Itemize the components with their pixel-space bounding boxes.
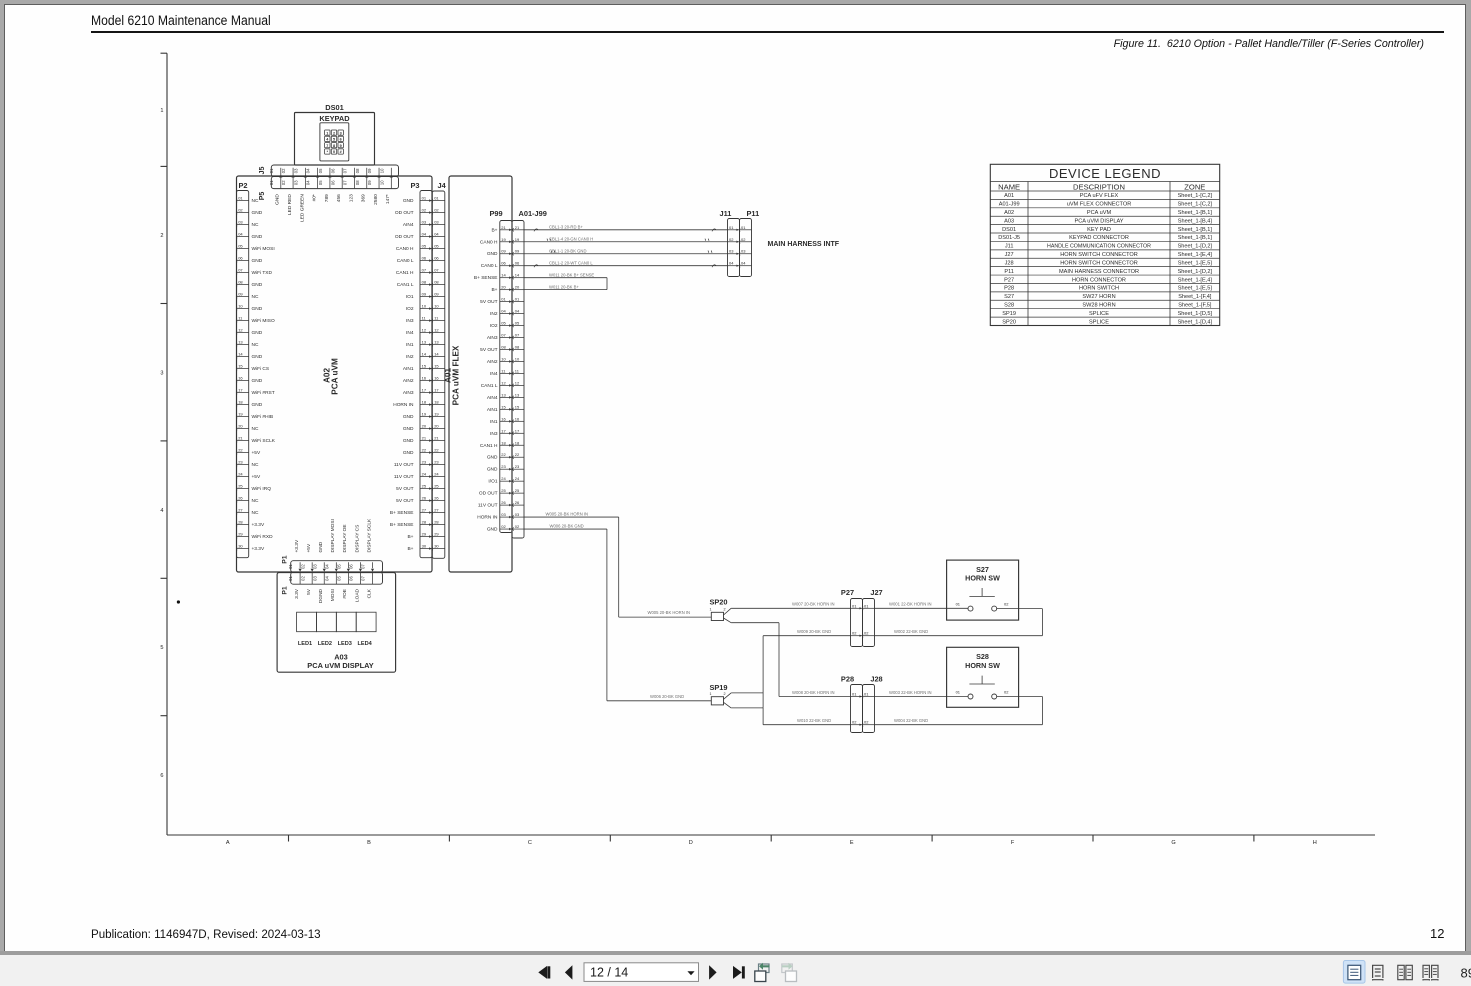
svg-text:+5V: +5V <box>252 450 261 456</box>
svg-text:06: 06 <box>515 261 520 266</box>
svg-text:07: 07 <box>343 180 348 185</box>
svg-text:09: 09 <box>238 292 243 297</box>
svg-text:HORN SW: HORN SW <box>965 574 1000 583</box>
svg-text:CAN0 L: CAN0 L <box>481 263 498 269</box>
svg-text:DGND: DGND <box>318 588 324 603</box>
svg-text:23: 23 <box>238 460 243 465</box>
svg-text:02: 02 <box>1004 602 1009 607</box>
svg-text:3.3V: 3.3V <box>294 588 300 599</box>
svg-text:08: 08 <box>501 345 506 350</box>
S27 actuator <box>981 588 983 596</box>
svg-text:LED3: LED3 <box>338 641 352 647</box>
J5 pin 02 <box>292 168 294 177</box>
svg-text:02: 02 <box>434 208 439 213</box>
svg-text:HORN SWITCH CONNECTOR: HORN SWITCH CONNECTOR <box>1060 252 1138 258</box>
device A01 PCA uVM FLEX outline <box>449 176 512 572</box>
svg-text:02: 02 <box>1004 690 1009 695</box>
svg-text:11: 11 <box>238 316 243 321</box>
svg-text:C: C <box>528 840 532 846</box>
svg-text:S27: S27 <box>976 565 989 574</box>
svg-text:SW27 HORN: SW27 HORN <box>1082 294 1115 300</box>
svg-text:WiFi MISO: WiFi MISO <box>252 318 275 324</box>
svg-text:06: 06 <box>330 168 335 173</box>
svg-text:14: 14 <box>422 352 427 357</box>
device legend table <box>990 164 1219 325</box>
svg-text:21: 21 <box>422 436 427 441</box>
LED indicators LED1-LED4 <box>297 612 317 632</box>
svg-text:5: 5 <box>160 645 163 651</box>
svg-text:20: 20 <box>434 424 439 429</box>
svg-text:05: 05 <box>422 244 427 249</box>
svg-text:HORN SWITCH: HORN SWITCH <box>1079 286 1119 292</box>
svg-text:B+: B+ <box>407 534 413 540</box>
P5 pin 02 with arrow <box>292 177 294 188</box>
svg-text:2: 2 <box>723 692 725 696</box>
svg-text:W001 22-BK HORN IN: W001 22-BK HORN IN <box>889 602 932 607</box>
svg-text:02: 02 <box>281 180 286 185</box>
svg-text:GND: GND <box>403 438 414 444</box>
svg-text:11: 11 <box>501 368 506 373</box>
svg-text:17: 17 <box>515 428 520 433</box>
svg-text:28: 28 <box>422 520 427 525</box>
svg-text:P2: P2 <box>239 181 248 190</box>
svg-text:12: 12 <box>434 328 439 333</box>
svg-text:14: 14 <box>515 273 520 278</box>
svg-text:6: 6 <box>160 773 163 779</box>
svg-text:Sheet_1-[D,5]: Sheet_1-[D,5] <box>1178 311 1213 317</box>
svg-text:19: 19 <box>501 237 506 242</box>
svg-text:P99: P99 <box>490 209 503 218</box>
svg-text:Sheet_1-[E,5]: Sheet_1-[E,5] <box>1178 260 1213 266</box>
svg-text:GND: GND <box>487 527 498 533</box>
svg-text:J5: J5 <box>259 167 266 175</box>
svg-text:HANDLE COMMUNICATION CONNECTOR: HANDLE COMMUNICATION CONNECTOR <box>1047 244 1151 250</box>
svg-text:WiFi RXD: WiFi RXD <box>252 534 274 540</box>
svg-text:01: 01 <box>501 297 506 302</box>
svg-text:23: 23 <box>515 464 520 469</box>
svg-text:IN1: IN1 <box>406 342 414 348</box>
svg-text:D: D <box>689 840 693 846</box>
svg-text:06: 06 <box>501 261 506 266</box>
svg-text:27: 27 <box>434 508 439 513</box>
svg-text:04: 04 <box>306 168 311 173</box>
svg-text:02: 02 <box>729 237 734 242</box>
svg-text:IN2: IN2 <box>490 311 498 317</box>
wire W006 GND segment <box>524 528 607 530</box>
svg-text:P27: P27 <box>1004 277 1014 283</box>
svg-text:29: 29 <box>238 532 243 537</box>
svg-text:W007 20-BK HORN IN: W007 20-BK HORN IN <box>792 602 835 607</box>
P5 pin 03 with arrow <box>304 177 306 188</box>
svg-text:04: 04 <box>515 309 520 314</box>
svg-text:DEVICE LEGEND: DEVICE LEGEND <box>1049 166 1161 181</box>
svg-text:AIN3: AIN3 <box>487 335 498 341</box>
svg-text:5V OUT: 5V OUT <box>480 347 497 353</box>
svg-text:GND: GND <box>252 282 263 288</box>
svg-text:03: 03 <box>422 220 427 225</box>
svg-text:07: 07 <box>361 576 366 581</box>
svg-text:HORN IN: HORN IN <box>477 515 498 521</box>
svg-text:W005 20-BK HORN IN: W005 20-BK HORN IN <box>546 511 589 516</box>
svg-text:NAME: NAME <box>998 182 1020 191</box>
svg-text:02: 02 <box>238 208 243 213</box>
svg-text:10: 10 <box>515 356 520 361</box>
wire W005 HORN IN segment <box>524 516 619 518</box>
svg-text:05: 05 <box>515 321 520 326</box>
svg-text:HORN SW: HORN SW <box>965 661 1000 670</box>
svg-text:03: 03 <box>293 168 298 173</box>
svg-text:02: 02 <box>741 237 746 242</box>
svg-text:17: 17 <box>501 428 506 433</box>
svg-text:PCA uVM DISPLAY: PCA uVM DISPLAY <box>1074 218 1123 224</box>
svg-text:05: 05 <box>238 244 243 249</box>
wire W004 GND return S28 to J28 <box>997 696 1043 698</box>
svg-text:4: 4 <box>326 138 329 142</box>
svg-text:123: 123 <box>348 194 354 202</box>
svg-text:HORN CONNECTOR: HORN CONNECTOR <box>1072 277 1126 283</box>
svg-text:Sheet_1-[B,1]: Sheet_1-[B,1] <box>1178 227 1213 233</box>
P5 pin 01 with arrow <box>280 177 282 188</box>
svg-text:07: 07 <box>343 168 348 173</box>
svg-text:CAN0 H: CAN0 H <box>480 239 498 245</box>
svg-text:06: 06 <box>349 576 354 581</box>
P5 pin 08 with arrow <box>366 177 368 188</box>
svg-text:8: 8 <box>333 144 335 148</box>
svg-text:06: 06 <box>434 256 439 261</box>
svg-text:5: 5 <box>333 138 335 142</box>
svg-text:12: 12 <box>515 380 520 385</box>
svg-text:DISPLAY CS: DISPLAY CS <box>354 525 360 553</box>
svg-text:13: 13 <box>238 340 243 345</box>
svg-text:IO2: IO2 <box>490 323 498 329</box>
svg-text:25: 25 <box>434 484 439 489</box>
svg-text:18: 18 <box>515 440 520 445</box>
svg-text:P1: P1 <box>282 555 289 564</box>
svg-text:1: 1 <box>709 608 711 612</box>
svg-text:02: 02 <box>864 720 869 725</box>
svg-text:21: 21 <box>515 225 520 230</box>
svg-text:CAN1 L: CAN1 L <box>397 282 414 288</box>
P1 pin 06 with arrow <box>359 562 361 568</box>
svg-text:09: 09 <box>434 292 439 297</box>
svg-text:30: 30 <box>434 544 439 549</box>
svg-text:25: 25 <box>238 484 243 489</box>
svg-text:IO2: IO2 <box>406 306 414 312</box>
svg-text:LED RED: LED RED <box>287 194 293 215</box>
svg-text:DS01-J5: DS01-J5 <box>998 235 1020 241</box>
svg-text:09: 09 <box>367 168 372 173</box>
svg-text:09: 09 <box>367 180 372 185</box>
svg-text:26: 26 <box>238 496 243 501</box>
svg-text:SP20: SP20 <box>1002 319 1016 325</box>
wire CBL1-3 net B+ <box>524 229 728 231</box>
svg-text:2: 2 <box>723 608 725 612</box>
svg-text:07: 07 <box>422 268 427 273</box>
svg-text:01: 01 <box>288 576 293 581</box>
svg-text:07: 07 <box>361 564 366 569</box>
svg-text:7: 7 <box>326 144 328 148</box>
svg-text:AIN4: AIN4 <box>403 222 414 228</box>
svg-text:GND: GND <box>252 378 263 384</box>
svg-text:NC: NC <box>252 426 259 432</box>
svg-text:DISPLAY SCLK: DISPLAY SCLK <box>366 518 372 552</box>
svg-text:25: 25 <box>501 488 506 493</box>
svg-text:ZONE: ZONE <box>1184 182 1205 191</box>
P1 pin 02 with arrow <box>311 562 313 568</box>
svg-text:12: 12 <box>422 328 427 333</box>
P5 pin 10 with arrow <box>390 177 392 188</box>
svg-text:F: F <box>1011 840 1015 846</box>
svg-text:08: 08 <box>422 280 427 285</box>
P1 pin 01 with arrow <box>299 562 301 568</box>
svg-text:5V OUT: 5V OUT <box>480 299 497 305</box>
svg-text:I/O1: I/O1 <box>488 479 497 485</box>
svg-text:18: 18 <box>501 440 506 445</box>
svg-text:+3.3V: +3.3V <box>252 522 265 528</box>
svg-text:01: 01 <box>852 692 857 697</box>
svg-text:15: 15 <box>422 364 427 369</box>
svg-text:18: 18 <box>434 400 439 405</box>
svg-text:P28: P28 <box>841 675 854 684</box>
svg-text:02: 02 <box>864 631 869 636</box>
svg-text:2: 2 <box>160 233 163 239</box>
svg-text:06: 06 <box>238 256 243 261</box>
J5 pin 05 <box>329 168 331 177</box>
sheet zone ruler vertical <box>166 53 168 835</box>
svg-text:17: 17 <box>422 388 427 393</box>
svg-text:19: 19 <box>238 412 243 417</box>
svg-text:26: 26 <box>422 496 427 501</box>
svg-text:22: 22 <box>238 448 243 453</box>
svg-text:NC: NC <box>252 498 259 504</box>
svg-text:10: 10 <box>379 180 384 185</box>
wire W007 HORN IN to P27 <box>724 608 732 615</box>
svg-text:20: 20 <box>422 424 427 429</box>
svg-text:5V OUT: 5V OUT <box>396 486 413 492</box>
svg-text:P11: P11 <box>747 209 760 218</box>
svg-text:10: 10 <box>379 168 384 173</box>
wire W003 HORN IN J28 to S28 <box>875 696 969 698</box>
svg-text:15: 15 <box>434 364 439 369</box>
svg-text:+3.3V: +3.3V <box>252 546 265 552</box>
svg-text:11V OUT: 11V OUT <box>478 503 498 509</box>
svg-text:08: 08 <box>238 280 243 285</box>
svg-text:01: 01 <box>956 690 961 695</box>
svg-text:LED4: LED4 <box>357 641 372 647</box>
svg-text:02: 02 <box>281 168 286 173</box>
svg-text:PCA uVM DISPLAY: PCA uVM DISPLAY <box>307 661 373 670</box>
svg-text:01: 01 <box>288 564 293 569</box>
revision dot marker <box>177 600 180 603</box>
svg-text:14: 14 <box>434 352 439 357</box>
svg-text:28: 28 <box>434 520 439 525</box>
svg-text:06: 06 <box>422 256 427 261</box>
svg-text:17: 17 <box>238 388 243 393</box>
svg-text:20: 20 <box>515 285 520 290</box>
svg-text:18: 18 <box>422 400 427 405</box>
svg-text:03: 03 <box>312 564 317 569</box>
svg-text:01: 01 <box>956 602 961 607</box>
svg-text:W002 22-BK GND: W002 22-BK GND <box>894 629 928 634</box>
svg-text:12: 12 <box>238 328 243 333</box>
svg-text:5V: 5V <box>306 588 312 595</box>
svg-text:2580: 2580 <box>373 194 379 205</box>
svg-text:04: 04 <box>238 232 243 237</box>
svg-text:25: 25 <box>515 488 520 493</box>
svg-text:02: 02 <box>422 208 427 213</box>
svg-text:MAIN HARNESS CONNECTOR: MAIN HARNESS CONNECTOR <box>1059 269 1139 275</box>
svg-text:G: G <box>1171 840 1175 846</box>
svg-text:#: # <box>340 150 342 154</box>
svg-text:08: 08 <box>355 168 360 173</box>
svg-text:CBL1-2 20-WT CAN0 L: CBL1-2 20-WT CAN0 L <box>549 260 593 265</box>
svg-text:04: 04 <box>324 576 329 581</box>
svg-text:10: 10 <box>501 356 506 361</box>
svg-text:23: 23 <box>422 460 427 465</box>
svg-text:J4: J4 <box>438 181 447 190</box>
svg-text:B+ SENSE: B+ SENSE <box>390 522 414 528</box>
svg-text:AIN1: AIN1 <box>403 366 414 372</box>
P1 pin 04 with arrow <box>335 562 337 568</box>
svg-text:08: 08 <box>515 345 520 350</box>
svg-text:B+ SENSE: B+ SENSE <box>474 275 498 281</box>
svg-text:01: 01 <box>434 196 439 201</box>
svg-text:01: 01 <box>864 603 869 608</box>
svg-text:J28: J28 <box>870 675 882 684</box>
P1 pin 05 with arrow <box>347 562 349 568</box>
J5 pin 07 <box>353 168 355 177</box>
svg-text:4: 4 <box>160 508 163 514</box>
svg-text:16: 16 <box>422 376 427 381</box>
svg-text:24: 24 <box>422 472 427 477</box>
svg-text:13: 13 <box>422 340 427 345</box>
svg-text:P5: P5 <box>259 192 266 201</box>
svg-text:B+: B+ <box>407 546 413 552</box>
svg-text:A03: A03 <box>1004 218 1014 224</box>
svg-text:13: 13 <box>501 392 506 397</box>
svg-text:369: 369 <box>361 194 367 202</box>
J5 pin 10 <box>390 168 392 177</box>
svg-text:11: 11 <box>422 316 427 321</box>
svg-text:W008 20-BK HORN IN: W008 20-BK HORN IN <box>792 690 835 695</box>
svg-text:29: 29 <box>422 532 427 537</box>
svg-text:CLK: CLK <box>366 588 372 598</box>
switch S27 HORN SW <box>947 560 1019 620</box>
S28 contacts <box>968 694 973 699</box>
svg-text:24: 24 <box>434 472 439 477</box>
svg-text:03: 03 <box>312 576 317 581</box>
svg-text:25: 25 <box>422 484 427 489</box>
svg-text:LED2: LED2 <box>318 641 332 647</box>
svg-text:B+: B+ <box>491 287 497 293</box>
svg-text:LOAD: LOAD <box>354 588 360 602</box>
svg-text:22: 22 <box>515 452 520 457</box>
svg-text:06: 06 <box>349 564 354 569</box>
S27 contacts <box>968 606 973 611</box>
svg-text:Sheet_1-[C,2]: Sheet_1-[C,2] <box>1178 202 1213 208</box>
svg-text:E: E <box>850 840 854 846</box>
svg-text:S28: S28 <box>1004 302 1014 308</box>
svg-text:04: 04 <box>422 232 427 237</box>
svg-text:04: 04 <box>729 261 734 266</box>
P5 pin 06 with arrow <box>341 177 343 188</box>
svg-text:+3.3V: +3.3V <box>294 539 300 552</box>
svg-text:HORN SWITCH CONNECTOR: HORN SWITCH CONNECTOR <box>1060 260 1138 266</box>
svg-text:W011 20-BK B+ SENSE: W011 20-BK B+ SENSE <box>549 272 594 277</box>
svg-text:08: 08 <box>355 180 360 185</box>
svg-text:789: 789 <box>324 194 330 202</box>
svg-text:SPLICE: SPLICE <box>1089 319 1109 325</box>
svg-text:OD OUT: OD OUT <box>395 234 414 240</box>
svg-text:OD OUT: OD OUT <box>479 491 498 497</box>
svg-text:GND: GND <box>403 426 414 432</box>
svg-text:Sheet_1-[B,4]: Sheet_1-[B,4] <box>1178 218 1213 224</box>
svg-text:A: A <box>226 840 230 846</box>
svg-text:01: 01 <box>741 225 746 230</box>
svg-text:05: 05 <box>336 564 341 569</box>
svg-text:Sheet_1-[D,2]: Sheet_1-[D,2] <box>1178 244 1213 250</box>
J5 pin 06 <box>341 168 343 177</box>
svg-text:06: 06 <box>330 180 335 185</box>
svg-text:10: 10 <box>238 304 243 309</box>
svg-text:11: 11 <box>434 316 439 321</box>
svg-text:J27: J27 <box>1005 252 1014 258</box>
svg-text:02: 02 <box>501 524 506 529</box>
svg-text:1: 1 <box>709 692 711 696</box>
svg-text:J11: J11 <box>720 209 732 218</box>
svg-text:GND: GND <box>403 198 414 204</box>
keypad icon <box>320 123 349 161</box>
svg-text:SP19: SP19 <box>1002 311 1016 317</box>
svg-text:28: 28 <box>238 520 243 525</box>
svg-text:A02: A02 <box>1004 210 1014 216</box>
svg-text:DESCRIPTION: DESCRIPTION <box>1073 182 1125 191</box>
svg-text:WiFi TXD: WiFi TXD <box>252 270 273 276</box>
svg-text:PCA uVM: PCA uVM <box>1087 210 1112 216</box>
svg-text:05: 05 <box>336 576 341 581</box>
svg-text:01: 01 <box>238 196 243 201</box>
svg-text:GND: GND <box>252 234 263 240</box>
svg-text:01: 01 <box>269 180 274 185</box>
svg-text:03: 03 <box>729 249 734 254</box>
P1 pin 03 with arrow <box>323 562 325 568</box>
svg-text:GND: GND <box>487 251 498 257</box>
wire CBL1-1 net GND <box>524 253 728 255</box>
svg-text:GND: GND <box>252 210 263 216</box>
svg-text:KEY PAD: KEY PAD <box>1087 227 1111 233</box>
svg-text:Sheet_1-[C,2]: Sheet_1-[C,2] <box>1178 193 1213 199</box>
svg-text:NC: NC <box>252 294 259 300</box>
svg-text:05: 05 <box>318 180 323 185</box>
svg-text:03: 03 <box>293 180 298 185</box>
svg-text:13: 13 <box>515 392 520 397</box>
wire W010 GND to P28 <box>724 702 732 708</box>
svg-text:01: 01 <box>729 225 734 230</box>
wire W008 HORN IN to P28 <box>724 618 732 623</box>
svg-text:26: 26 <box>515 500 520 505</box>
svg-text:GND: GND <box>318 541 324 552</box>
svg-text:GND: GND <box>275 194 281 205</box>
svg-text:NC: NC <box>252 462 259 468</box>
svg-text:12 / 14: 12 / 14 <box>590 966 628 980</box>
svg-text:NC: NC <box>252 222 259 228</box>
wire W001 HORN IN J27 to S27 <box>875 607 969 609</box>
svg-text:WiFi #RST: WiFi #RST <box>252 390 275 396</box>
svg-text:GND: GND <box>252 402 263 408</box>
P1 pin 07 with arrow <box>372 562 374 568</box>
svg-text:CAN0 H: CAN0 H <box>396 246 414 252</box>
svg-text:07: 07 <box>501 333 506 338</box>
